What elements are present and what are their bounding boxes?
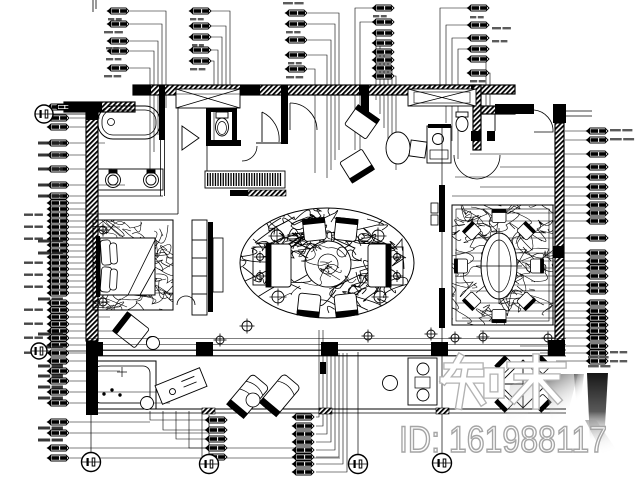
bathroom right wall black xyxy=(159,85,165,140)
top edge tick lines xyxy=(92,0,94,12)
entry door arc xyxy=(534,110,553,132)
console dresser xyxy=(205,171,285,188)
toilet in WC xyxy=(216,112,229,136)
hall door arc left xyxy=(454,155,477,179)
room south wall line xyxy=(86,338,566,340)
leader lines top cluster 4 xyxy=(355,8,373,150)
leader lines top cluster 3 xyxy=(308,13,339,150)
closet right with X xyxy=(408,89,476,106)
terrace upper rail lines xyxy=(86,344,566,346)
svg-text:ID: 161988117: ID: 161988117 xyxy=(399,419,607,460)
center swirl overlay xyxy=(278,233,356,300)
bed canopy post bottom xyxy=(97,296,110,309)
right wall bottom black xyxy=(548,340,565,356)
grid bubble bottom 2 xyxy=(200,455,219,474)
terrace round table small xyxy=(147,337,160,350)
ellipse chair top-left xyxy=(302,217,326,241)
leader lines left labels xyxy=(70,107,340,458)
minibar xyxy=(427,126,451,163)
watermark logo mid wedge xyxy=(545,374,578,420)
top label cluster 3 xyxy=(285,10,308,16)
left label column xyxy=(47,104,70,110)
terrace chaise 2 xyxy=(259,373,300,416)
shower door arc xyxy=(262,112,279,142)
bathroom lower wall xyxy=(206,140,241,146)
bed blanket fold xyxy=(128,240,155,295)
terrace columns xyxy=(86,342,103,356)
column stub terrace xyxy=(320,362,326,374)
console black base xyxy=(230,190,286,196)
desk chair xyxy=(383,376,398,391)
foyer armchair 2 xyxy=(340,149,375,183)
right wall black segment xyxy=(553,246,564,258)
right bedroom downlight left xyxy=(449,332,462,345)
top-left wall hatched xyxy=(64,102,135,112)
bedroom separation line xyxy=(86,213,178,215)
watermark logo dark streak xyxy=(587,373,608,443)
foyer round table xyxy=(386,132,410,164)
vanity counter xyxy=(98,169,163,190)
right outer wall hatched xyxy=(555,123,564,353)
vanity front edge xyxy=(98,195,163,197)
downlight top-right xyxy=(370,228,387,245)
grid bubble bottom 4 xyxy=(433,454,452,473)
bed canopy post top xyxy=(97,224,110,237)
foyer vertical wall xyxy=(361,85,369,114)
top label cluster 2 xyxy=(189,8,212,14)
grid line stubs left xyxy=(53,113,87,115)
column top-left xyxy=(86,106,98,120)
sink left xyxy=(106,170,121,188)
leader lines top cluster 5 xyxy=(440,8,468,105)
terrace bottom hatch blocks xyxy=(202,408,215,414)
shower head symbol triangle xyxy=(182,126,199,150)
oval rug xyxy=(240,208,414,318)
watermark logo swoosh xyxy=(585,420,622,458)
right bedroom rug xyxy=(452,205,553,325)
closet left with X xyxy=(176,89,240,108)
leader lines top cluster 2 xyxy=(211,11,230,95)
grid bubble bottom 3 xyxy=(349,455,368,474)
terrace low wall segments xyxy=(101,351,197,356)
round bed ellipse xyxy=(481,233,517,299)
bottom label cluster B1 xyxy=(205,417,228,423)
TV shelf xyxy=(213,238,223,292)
console left of ellipse xyxy=(253,247,267,285)
leader lines top cluster 1 xyxy=(130,8,490,178)
powder toilet xyxy=(456,112,468,132)
misc downlights xyxy=(214,334,227,347)
foyer armchair 1 xyxy=(344,105,379,140)
top wall black segments xyxy=(133,85,151,95)
downlight bottom-left xyxy=(270,289,287,306)
sink right xyxy=(144,170,159,188)
right bedroom chairs around bed xyxy=(492,210,506,223)
top label cluster 1 xyxy=(107,8,130,14)
lounge side table xyxy=(147,337,158,348)
right bedroom wall upper xyxy=(439,185,445,232)
entry top wall lower band xyxy=(481,106,515,114)
terrace long table xyxy=(155,368,207,405)
hall door arc right xyxy=(477,155,500,179)
terrace bottom edge xyxy=(86,408,566,410)
bottom label cluster B2 xyxy=(292,414,315,420)
grid bubble left top xyxy=(35,105,53,123)
right label column xyxy=(586,128,609,134)
terrace chaise 1 xyxy=(227,374,270,419)
TV cabinet left bedroom xyxy=(192,220,207,315)
entry wall black segment xyxy=(495,104,534,114)
left bedroom door arc xyxy=(177,296,195,305)
top-left wall black part xyxy=(64,102,102,112)
right bedroom wall fixtures xyxy=(431,203,438,225)
WC niche walls xyxy=(206,108,211,144)
terrace X table group xyxy=(499,360,547,408)
leader lines right labels xyxy=(452,131,587,361)
leader lines bottom cluster B1 xyxy=(150,330,347,472)
downlight top-left xyxy=(269,228,286,245)
desk bottom right xyxy=(408,358,437,405)
entry column black xyxy=(553,104,566,123)
bathtub xyxy=(98,106,160,139)
top label cluster 5 xyxy=(467,5,490,11)
entry inner wall line xyxy=(494,114,496,131)
jacuzzi xyxy=(88,361,156,409)
ellipse loveseat right xyxy=(368,244,391,287)
downlight bottom-right xyxy=(372,289,389,306)
marker ellipse bottom-left xyxy=(240,319,255,334)
bathroom door arc xyxy=(242,146,257,161)
bed headboard xyxy=(96,236,100,297)
ellipse chair top-right xyxy=(334,217,358,241)
grid bubble left mid xyxy=(31,343,47,359)
console right of ellipse xyxy=(391,247,403,285)
terrace chaise round table xyxy=(246,393,260,407)
top wall right section xyxy=(430,85,515,94)
ellipse loveseat left xyxy=(266,244,291,287)
oval rug swirl texture xyxy=(223,191,408,325)
right bedroom downlight right xyxy=(542,332,555,345)
bath hall door arc xyxy=(290,103,317,130)
left bedroom lounge chair xyxy=(113,312,150,348)
top wall main hatched xyxy=(133,85,481,95)
bed king xyxy=(100,238,155,295)
top label cluster 4 xyxy=(372,5,395,11)
center coffee table xyxy=(305,241,351,287)
left bedroom rug xyxy=(93,220,173,310)
grid lines vertical xyxy=(90,415,92,452)
grid bubble bottom 1 xyxy=(82,453,101,472)
ellipse chair bottom-right xyxy=(334,293,358,317)
leader lines bottom cluster B2 xyxy=(316,330,319,417)
powder room wall xyxy=(471,131,481,141)
left outer wall hatched xyxy=(86,108,98,341)
right bedroom wall lower xyxy=(439,288,445,328)
foyer side square xyxy=(409,140,427,158)
entry vertical wall hatched xyxy=(473,85,481,150)
watermark logo small wedge xyxy=(574,374,584,400)
bathroom wall lines below tub xyxy=(160,140,162,196)
label at left top bubble xyxy=(54,104,72,110)
left bedroom TV wall xyxy=(208,222,213,312)
watermark text zhi xyxy=(443,357,563,406)
ellipse chair bottom-left xyxy=(297,293,321,317)
terrace table circle xyxy=(141,397,154,410)
center vertical wall xyxy=(281,85,288,144)
bed pillows xyxy=(100,240,117,293)
left outer wall black lower xyxy=(86,341,98,415)
